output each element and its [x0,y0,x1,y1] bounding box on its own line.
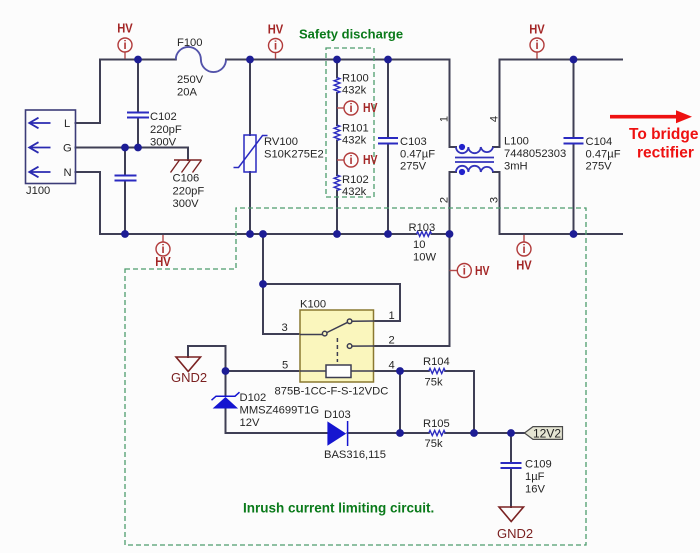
svg-text:GND2: GND2 [497,526,533,541]
svg-text:220pF: 220pF [150,124,182,136]
svg-text:HV: HV [268,22,284,37]
svg-text:BAS316,115: BAS316,115 [324,449,386,461]
svg-text:432k: 432k [342,135,367,147]
svg-text:i: i [274,39,277,53]
svg-text:4: 4 [389,360,395,372]
svg-text:J100: J100 [26,185,50,197]
svg-text:432k: 432k [342,85,367,97]
svg-text:C106: C106 [173,173,200,185]
svg-text:R102: R102 [342,174,369,186]
svg-text:0.47µF: 0.47µF [586,149,621,161]
svg-text:300V: 300V [173,198,200,210]
svg-text:K100: K100 [300,299,326,311]
svg-text:HV: HV [475,263,490,278]
svg-text:75k: 75k [425,438,443,450]
svg-text:N: N [64,167,72,179]
svg-text:i: i [349,101,352,115]
svg-text:RV100: RV100 [264,136,298,148]
svg-text:10: 10 [413,239,425,251]
svg-text:1µF: 1µF [525,471,545,483]
svg-text:HV: HV [155,254,171,269]
svg-text:D103: D103 [324,409,351,421]
svg-text:4: 4 [489,116,501,122]
svg-text:i: i [535,38,538,52]
svg-text:12V: 12V [240,417,260,429]
svg-text:220pF: 220pF [173,186,205,198]
svg-text:i: i [522,242,525,256]
svg-text:3mH: 3mH [504,161,528,173]
svg-text:1: 1 [439,116,451,122]
svg-text:i: i [123,38,126,52]
svg-text:Inrush current limiting circui: Inrush current limiting circuit. [243,501,434,516]
svg-text:L100: L100 [504,136,529,148]
svg-text:16V: 16V [525,484,545,496]
svg-text:C109: C109 [525,459,552,471]
svg-text:D102: D102 [240,392,267,404]
svg-text:0.47µF: 0.47µF [400,149,435,161]
svg-text:S10K275E2: S10K275E2 [264,149,324,161]
svg-text:R105: R105 [423,418,450,430]
svg-text:rectifier: rectifier [637,145,694,162]
svg-text:R104: R104 [423,356,450,368]
svg-text:875B-1CC-F-S-12VDC: 875B-1CC-F-S-12VDC [275,386,389,398]
svg-text:MMSZ4699T1G: MMSZ4699T1G [240,405,320,417]
svg-text:HV: HV [363,152,378,167]
svg-text:12V2: 12V2 [533,427,561,441]
svg-text:2: 2 [439,197,451,203]
svg-text:275V: 275V [400,161,427,173]
svg-text:F100: F100 [177,37,203,49]
svg-text:3: 3 [489,197,501,203]
svg-text:HV: HV [363,100,378,115]
svg-text:250V: 250V [177,74,204,86]
svg-text:2: 2 [389,335,395,347]
svg-text:300V: 300V [150,137,177,149]
svg-text:Safety discharge: Safety discharge [299,27,403,42]
svg-text:R103: R103 [409,222,436,234]
svg-text:C104: C104 [586,136,613,148]
svg-text:5: 5 [282,360,288,372]
svg-text:i: i [463,264,466,278]
svg-text:1: 1 [389,310,395,322]
svg-text:L: L [64,118,70,130]
svg-text:75k: 75k [425,377,443,389]
svg-text:HV: HV [516,258,532,273]
svg-text:G: G [63,143,72,155]
svg-text:432k: 432k [342,186,367,198]
svg-text:C103: C103 [400,136,427,148]
svg-text:HV: HV [529,22,545,37]
svg-text:10W: 10W [413,252,436,264]
svg-text:275V: 275V [586,161,613,173]
svg-text:To bridge: To bridge [629,126,699,143]
svg-text:20A: 20A [177,87,197,99]
svg-text:R100: R100 [342,73,369,85]
svg-text:HV: HV [117,21,133,36]
svg-text:7448052303: 7448052303 [504,148,566,160]
svg-text:GND2: GND2 [171,370,207,385]
svg-text:R101: R101 [342,123,369,135]
svg-text:C102: C102 [150,111,177,123]
svg-text:i: i [349,153,352,167]
svg-text:3: 3 [282,322,288,334]
